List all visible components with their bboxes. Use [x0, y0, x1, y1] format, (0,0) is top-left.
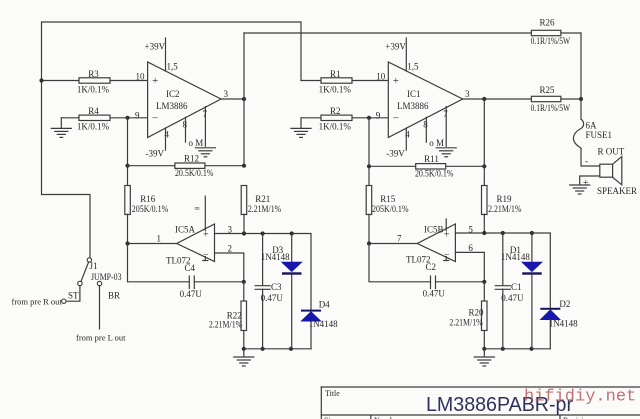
wire output rail to fuse — [580, 33, 582, 119]
svg-text:1: 1 — [157, 234, 162, 244]
svg-text:0.47U: 0.47U — [180, 289, 203, 299]
wire IC2 output vertical riser — [243, 33, 245, 166]
svg-text:0.1R/1%/5W: 0.1R/1%/5W — [531, 103, 571, 113]
svg-text:9: 9 — [376, 111, 381, 121]
resistor R11 — [369, 154, 484, 179]
wire left channel bottom rail — [244, 348, 311, 350]
svg-text:C4: C4 — [185, 263, 196, 273]
svg-text:SPEAKER: SPEAKER — [597, 186, 637, 196]
op-amp U-IC2 LM3886 — [135, 62, 229, 138]
node bottom R20 — [482, 347, 486, 351]
svg-text:o M: o M — [189, 138, 204, 148]
ground left channel — [234, 349, 254, 366]
wire parallel bus to R26 — [244, 32, 531, 34]
node R11 left — [367, 164, 371, 168]
svg-text:2.21M/1%: 2.21M/1% — [209, 319, 243, 329]
svg-text:1K/0.1%: 1K/0.1% — [319, 85, 352, 95]
node C1 top — [501, 231, 505, 235]
resistor R25 — [531, 85, 581, 113]
svg-text:R21: R21 — [255, 194, 270, 204]
svg-text:−: − — [444, 250, 450, 261]
wire IC2 noninverting input line — [42, 80, 148, 82]
IC2 +39V supply pin — [145, 38, 179, 72]
svg-text:−: − — [203, 250, 209, 261]
resistor R15 — [366, 186, 409, 215]
svg-text:R1: R1 — [330, 69, 341, 79]
svg-text:o M: o M — [429, 138, 444, 148]
svg-text:3: 3 — [224, 89, 229, 99]
IC2 -39V supply pin 4 — [146, 128, 170, 159]
wire IC1 inverting input line — [301, 117, 388, 119]
svg-text:6: 6 — [468, 243, 473, 253]
svg-text:from pre R out: from pre R out — [12, 296, 63, 306]
svg-text:1K/0.1%: 1K/0.1% — [77, 85, 110, 95]
svg-text:20.5K/0.1%: 20.5K/0.1% — [415, 169, 454, 179]
svg-text:1N4148: 1N4148 — [261, 252, 290, 262]
op-amp U-IC1 LM3886 — [376, 62, 470, 138]
node D1 top — [530, 231, 534, 235]
wire IC5A output to R16 — [128, 243, 177, 245]
svg-text:+: + — [203, 230, 209, 241]
node bottom D1 — [529, 347, 533, 351]
wire right channel bottom rail — [484, 348, 550, 350]
svg-text:10: 10 — [136, 72, 146, 82]
capacitor C3 — [255, 234, 283, 349]
resistor R3 — [77, 69, 110, 95]
wire top loop left channel — [42, 22, 302, 258]
node R25 right — [579, 97, 583, 101]
svg-text:2.21M/1%: 2.21M/1% — [488, 204, 522, 214]
svg-text:3: 3 — [465, 89, 470, 99]
svg-text:0.47U: 0.47U — [261, 293, 284, 303]
svg-text:205K/0.1%: 205K/0.1% — [372, 204, 409, 214]
node bottom C1 — [501, 347, 505, 351]
ground speaker — [570, 176, 600, 194]
svg-text:+39V: +39V — [385, 42, 406, 52]
svg-text:+39V: +39V — [145, 42, 166, 52]
IC1 mute pin 8 — [423, 117, 444, 148]
node IC5A output — [125, 241, 129, 245]
svg-text:from pre L out: from pre L out — [76, 333, 126, 343]
op-amp U-IC5B TL072 — [397, 224, 473, 265]
capacitor C4 — [180, 263, 244, 299]
node bottom C3 — [261, 347, 265, 351]
svg-text:2: 2 — [228, 244, 233, 254]
diode D2 1N4148 — [540, 299, 578, 349]
svg-text:0.47U: 0.47U — [423, 289, 446, 299]
node R21 bottom — [242, 231, 246, 235]
svg-text:R16: R16 — [140, 194, 156, 204]
svg-text:IC5B: IC5B — [424, 225, 444, 235]
svg-text:2.21M/1%: 2.21M/1% — [449, 318, 483, 328]
svg-text:R12: R12 — [184, 154, 199, 164]
resistor R2 — [319, 106, 352, 132]
svg-text:Title: Title — [325, 389, 340, 398]
svg-text:8: 8 — [183, 120, 188, 130]
wire IC5B output down to C2 — [369, 244, 431, 282]
node R11 right — [482, 164, 486, 168]
resistor R4 — [77, 106, 110, 132]
wire IC5B noninverting line — [455, 233, 550, 308]
svg-text:1K/0.1%: 1K/0.1% — [319, 122, 352, 132]
ground R2 — [291, 118, 311, 138]
svg-text:10: 10 — [376, 72, 386, 82]
svg-text:R OUT: R OUT — [598, 147, 625, 157]
resistor R22 — [209, 282, 247, 349]
svg-text:−: − — [393, 113, 399, 125]
svg-text:20.5K/0.1%: 20.5K/0.1% — [175, 168, 214, 178]
svg-text:1N4148: 1N4148 — [501, 252, 530, 262]
IC5B V+ pin mark — [445, 219, 447, 231]
node R19 bottom — [482, 231, 486, 235]
svg-text:1,5: 1,5 — [167, 62, 179, 72]
IC5B V- pin mark — [444, 257, 449, 261]
wire IC5B output to R15 — [369, 243, 417, 245]
IC2 mute pin 8 — [183, 117, 204, 148]
svg-text:D2: D2 — [559, 299, 570, 309]
node C4 right R22 top — [242, 280, 246, 284]
svg-text:LM3886: LM3886 — [156, 101, 188, 111]
node IC2 output — [242, 97, 246, 101]
svg-text:7: 7 — [443, 109, 448, 119]
svg-text:4: 4 — [165, 130, 170, 140]
ground R4 — [51, 118, 71, 138]
svg-text:2.21M/1%: 2.21M/1% — [248, 204, 282, 214]
wire IC5A output down to C4 — [128, 244, 190, 282]
svg-text:+: + — [444, 230, 450, 241]
node R12 left — [125, 164, 129, 168]
wire IC1 output vertical to R19 — [483, 99, 485, 186]
IC2 pin 7 ground — [195, 107, 215, 157]
svg-text:R3: R3 — [88, 69, 99, 79]
node IC1 inverting feedback — [367, 116, 371, 120]
node bottom D3 — [289, 347, 293, 351]
svg-text:7: 7 — [203, 109, 208, 119]
op-amp U-IC5A TL072 — [157, 224, 233, 266]
IC1 +39V supply pin — [385, 38, 419, 72]
wire IC2 inverting input line — [61, 117, 147, 119]
node IC1 output — [482, 97, 486, 101]
svg-text:−: − — [152, 113, 158, 125]
svg-text:IC2: IC2 — [166, 89, 180, 99]
svg-text:7: 7 — [397, 234, 402, 244]
svg-text:∞: ∞ — [195, 203, 200, 212]
speaker SPEAKER — [583, 147, 637, 197]
svg-text:C3: C3 — [271, 282, 282, 292]
wire feedback vertical x127 — [127, 118, 129, 186]
svg-text:BR: BR — [108, 291, 120, 301]
jumper BR contact — [97, 281, 120, 329]
svg-text:-: - — [585, 156, 588, 166]
resistor R21 — [241, 186, 281, 234]
diode D3 1N4148 — [261, 234, 302, 349]
resistor R19 — [482, 186, 522, 234]
wire fuse to speaker — [581, 149, 600, 167]
wire IC5A inverting to R22 — [215, 253, 244, 282]
IC5A V- pin mark — [203, 257, 208, 261]
jumper ST contact — [66, 281, 82, 301]
IC1 pin 7 ground — [436, 107, 456, 157]
node bottom R22 — [242, 347, 246, 351]
svg-text:4: 4 — [405, 130, 410, 140]
capacitor C1 — [495, 233, 524, 349]
terminal from pre R out — [12, 296, 67, 306]
resistor R1 — [319, 69, 352, 95]
svg-text:LM3886: LM3886 — [397, 101, 429, 111]
title block bottom row labels — [324, 416, 591, 419]
wire IC1 noninverting input line — [301, 80, 388, 82]
svg-text:IC1: IC1 — [407, 89, 421, 99]
node input R3 — [39, 78, 43, 82]
svg-text:0.47U: 0.47U — [501, 293, 524, 303]
svg-text:-39V: -39V — [146, 149, 165, 159]
svg-text:R4: R4 — [88, 106, 99, 116]
node C3 top — [261, 231, 265, 235]
svg-text:R15: R15 — [380, 194, 396, 204]
fuse FUSE1 — [573, 119, 612, 149]
svg-text:0.1R/1%/5W: 0.1R/1%/5W — [531, 36, 571, 46]
ground right channel — [474, 349, 494, 366]
svg-text:ST: ST — [68, 291, 79, 301]
resistor R16 — [125, 186, 169, 215]
svg-text:+: + — [583, 178, 589, 189]
svg-text:C2: C2 — [426, 262, 437, 272]
capacitor C2 — [423, 262, 485, 299]
svg-text:1,5: 1,5 — [407, 62, 419, 72]
svg-text:1N4148: 1N4148 — [549, 319, 578, 329]
svg-text:+: + — [393, 75, 399, 87]
svg-text:IC5A: IC5A — [175, 225, 196, 235]
wire R16 bottom to IC5A output node — [127, 214, 129, 243]
svg-text:R26: R26 — [539, 18, 555, 28]
svg-text:C1: C1 — [511, 282, 522, 292]
node D3 top — [290, 231, 294, 235]
node IC5B output — [367, 241, 371, 245]
svg-text:R11: R11 — [424, 154, 439, 164]
wire IC5A noninverting line — [215, 234, 312, 310]
node R12 right — [242, 164, 246, 168]
resistor R26 — [531, 18, 581, 46]
svg-text:9: 9 — [135, 111, 140, 121]
svg-text:D4: D4 — [319, 299, 330, 309]
svg-text:+: + — [152, 75, 158, 87]
svg-text:J1: J1 — [90, 261, 98, 271]
svg-text:R19: R19 — [496, 194, 512, 204]
node C2 right R20 top — [482, 280, 486, 284]
node IC2 inverting feedback — [125, 116, 129, 120]
IC1 -39V supply pin 4 — [386, 128, 410, 159]
svg-text:6A: 6A — [586, 121, 598, 131]
wire R15 bottom to IC5B output node — [368, 214, 370, 243]
diode D4 1N4148 — [301, 299, 338, 348]
svg-text:1N4148: 1N4148 — [309, 319, 338, 329]
svg-text:-39V: -39V — [386, 149, 405, 159]
svg-text:hifidiy.net: hifidiy.net — [524, 388, 636, 407]
svg-text:FUSE1: FUSE1 — [586, 130, 613, 140]
resistor R20 — [449, 282, 487, 349]
svg-text:205K/0.1%: 205K/0.1% — [132, 204, 169, 214]
svg-text:8: 8 — [423, 120, 428, 130]
svg-text:R2: R2 — [330, 106, 341, 116]
diode D1 1N4148 — [501, 233, 542, 349]
wire feedback vertical x369 — [368, 118, 370, 186]
svg-text:JUMP-03: JUMP-03 — [91, 272, 122, 282]
jumper J1 common contact — [81, 258, 122, 282]
resistor R12 — [128, 154, 245, 178]
title block frame — [321, 387, 640, 419]
wire IC1 output — [463, 98, 532, 100]
IC5A V+ pin 8 — [195, 196, 206, 230]
svg-text:R25: R25 — [539, 85, 555, 95]
svg-text:1K/0.1%: 1K/0.1% — [77, 122, 110, 132]
svg-text:R20: R20 — [468, 308, 484, 318]
wire IC2 output — [221, 98, 244, 100]
wire IC5B inverting to R20 — [455, 252, 484, 282]
